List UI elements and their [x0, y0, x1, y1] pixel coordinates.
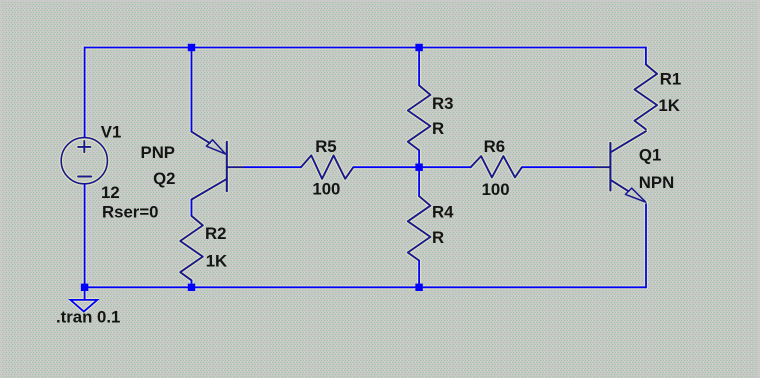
- svg-text:1K: 1K: [206, 252, 227, 271]
- svg-text:Q1: Q1: [639, 146, 661, 165]
- svg-text:Rser=0: Rser=0: [102, 203, 158, 222]
- svg-text:R5: R5: [315, 137, 336, 156]
- svg-text:R: R: [432, 119, 444, 138]
- svg-text:PNP: PNP: [141, 143, 176, 162]
- svg-text:100: 100: [482, 180, 510, 199]
- svg-text:NPN: NPN: [639, 173, 674, 192]
- svg-text:Q2: Q2: [153, 169, 175, 188]
- svg-text:.tran 0.1: .tran 0.1: [56, 307, 120, 326]
- svg-text:12: 12: [101, 183, 120, 202]
- svg-text:R: R: [432, 228, 444, 247]
- svg-text:R6: R6: [484, 137, 505, 156]
- svg-text:V1: V1: [101, 123, 122, 142]
- svg-text:R1: R1: [660, 70, 681, 89]
- svg-text:100: 100: [312, 179, 340, 198]
- svg-text:R2: R2: [205, 224, 226, 243]
- svg-text:1K: 1K: [658, 96, 679, 115]
- svg-text:R4: R4: [432, 202, 454, 221]
- svg-text:R3: R3: [432, 94, 453, 113]
